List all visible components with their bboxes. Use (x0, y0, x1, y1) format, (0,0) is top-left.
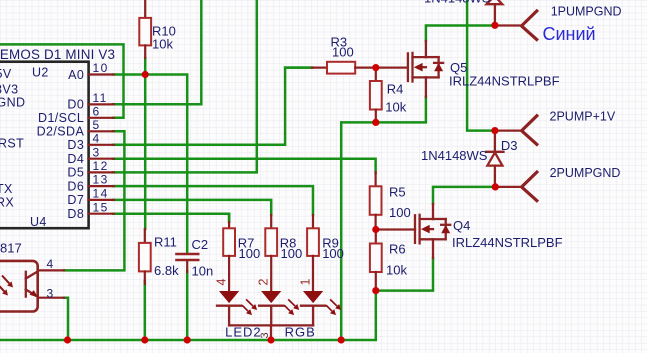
svg-text:2PUMPGND: 2PUMPGND (550, 166, 621, 180)
svg-text:R5: R5 (389, 185, 406, 200)
svg-text:1: 1 (299, 279, 313, 286)
svg-text:13: 13 (93, 173, 109, 187)
svg-text:6.8k: 6.8k (154, 263, 179, 278)
svg-text:11: 11 (93, 91, 108, 105)
resistor R9 (307, 215, 344, 291)
pin D0 (11) (67, 91, 113, 112)
svg-text:D8: D8 (67, 207, 84, 221)
pin D7 (14) (67, 187, 113, 208)
svg-text:14: 14 (93, 187, 109, 201)
opto pin 4 (38, 257, 64, 271)
svg-text:12: 12 (93, 159, 109, 173)
capacitor C2 (175, 237, 213, 279)
transistor Q4 IRLZ44NSTRLPBF (376, 204, 563, 258)
svg-text:RGB: RGB (285, 325, 316, 340)
wire A0 net (113, 75, 187, 253)
resistor R6 (370, 230, 408, 291)
svg-text:5V: 5V (0, 67, 12, 81)
svg-text:D2/SDA: D2/SDA (37, 125, 85, 139)
svg-text:U4: U4 (30, 215, 47, 229)
svg-text:15: 15 (93, 200, 109, 214)
resistor R10 (139, 0, 176, 58)
svg-text:Q4: Q4 (453, 218, 470, 233)
junction 2PUMP+1V node (491, 127, 498, 134)
svg-text:RX: RX (0, 196, 14, 210)
wire D5 net (113, 0, 257, 172)
pin D1/SCL (6) (38, 104, 114, 125)
wire R11 bottom to GND rail (144, 281, 147, 340)
svg-text:10: 10 (93, 61, 109, 75)
pin D3 (4) (67, 131, 113, 152)
svg-text:D6: D6 (67, 179, 84, 193)
LED package LED2 RGB : LED B (pin 2) (257, 279, 300, 326)
pin D6 (13) (67, 173, 113, 194)
svg-text:4: 4 (215, 279, 229, 286)
junction rail GND link (338, 336, 345, 343)
wire Q4 drain to 2PUMPGND node (433, 187, 495, 204)
wire R10 to A0 junction (144, 58, 147, 75)
resistor R7 (223, 215, 260, 291)
svg-text:100: 100 (332, 45, 354, 60)
pin A0 (10) (68, 61, 114, 82)
resistor R5 (370, 172, 411, 230)
svg-text:100: 100 (239, 246, 261, 261)
svg-text:LED2: LED2 (225, 325, 262, 340)
wire D7 net (113, 200, 271, 215)
pin D2/SDA (5) (37, 118, 114, 139)
wire D8 net (113, 214, 229, 221)
LED package LED2 RGB : LED A (pin 4) (215, 279, 258, 326)
pin D5 (12) (67, 159, 113, 180)
LED2 common cathode bus (pin 3) (225, 325, 316, 340)
optocoupler U? PC817 (clipped) (0, 241, 38, 312)
wire D6 net (113, 186, 313, 215)
junction 2PUMPGND node (492, 183, 499, 190)
opto pin 3 (38, 286, 64, 300)
svg-text:2PUMP+1V: 2PUMP+1V (550, 110, 616, 124)
svg-text:10k: 10k (385, 100, 406, 115)
wire D4 net (113, 159, 376, 173)
svg-text:RST: RST (0, 137, 24, 151)
diode D3 1N4148WS (421, 131, 518, 187)
wire Q5 drain to 1PUMPGND node (426, 26, 495, 42)
svg-text:100: 100 (281, 246, 303, 261)
svg-text:10k: 10k (152, 37, 173, 52)
resistor R3 (312, 35, 376, 74)
junction R5/R6/Q4 gate (372, 226, 379, 233)
svg-text:D5: D5 (67, 166, 84, 180)
svg-text:100: 100 (322, 246, 344, 261)
svg-text:100: 100 (389, 205, 411, 220)
svg-text:D0: D0 (67, 98, 84, 112)
svg-text:GND: GND (0, 96, 25, 110)
svg-text:3: 3 (47, 286, 54, 300)
wire R4 bottom GND link (341, 97, 426, 340)
svg-text:5: 5 (93, 118, 101, 132)
wire 2PUMP+1V net from top (467, 0, 495, 131)
pin D8 (15) (67, 200, 113, 221)
wire opto pin3 to GND rail (64, 298, 68, 340)
svg-text:C2: C2 (192, 237, 209, 252)
junction A0/R10/R11 (142, 71, 149, 78)
svg-text:10n: 10n (192, 264, 214, 279)
svg-text:U2: U2 (32, 66, 49, 80)
resistor R8 (265, 215, 302, 291)
svg-text:2: 2 (257, 279, 271, 286)
wire Q5 gate node horizontal (285, 66, 312, 69)
junction R3/R4/Q5 gate (372, 64, 379, 71)
junction rail LED (267, 336, 274, 343)
svg-text:1N4148WS: 1N4148WS (421, 148, 488, 163)
resistor R11 (139, 229, 179, 284)
svg-text:1N4148WS: 1N4148WS (424, 0, 491, 6)
svg-text:D1/SCL: D1/SCL (38, 111, 84, 125)
svg-text:D4: D4 (67, 152, 84, 166)
connector 1PUMPGND (495, 5, 622, 44)
svg-text:D3: D3 (67, 138, 84, 152)
svg-text:Синий: Синий (543, 24, 596, 44)
wire D0 net (113, 0, 201, 104)
wire D2/SDA net (64, 131, 124, 270)
LED package LED2 RGB : LED C (pin 1) (299, 279, 342, 326)
resistor R4 (370, 68, 407, 123)
wire C2 bottom to GND rail (186, 271, 189, 340)
junction R4/GND/Q5 source (372, 119, 379, 126)
junction 1PUMPGND node (491, 22, 498, 29)
junction rail C2 (184, 336, 191, 343)
junction rail opto (64, 336, 71, 343)
svg-text:D3: D3 (501, 138, 518, 153)
svg-text:WEMOS D1 MINI V3: WEMOS D1 MINI V3 (0, 47, 115, 62)
svg-text:4: 4 (93, 131, 101, 145)
svg-text:10k: 10k (386, 263, 407, 278)
connector 2PUMPGND (495, 166, 620, 202)
svg-text:IRLZ44NSTRLPBF: IRLZ44NSTRLPBF (452, 235, 563, 250)
svg-text:4: 4 (47, 257, 54, 271)
svg-text:PC817: PC817 (0, 241, 22, 256)
transistor Q5 IRLZ44NSTRLPBF (376, 41, 560, 97)
svg-text:R4: R4 (387, 82, 404, 97)
junction R6/Q4 source/GND (372, 287, 379, 294)
connector 2PUMP+1V (495, 110, 616, 146)
svg-text:R11: R11 (154, 234, 177, 249)
svg-text:6: 6 (93, 104, 101, 118)
svg-text:3V3: 3V3 (0, 82, 18, 96)
wire D1/SCL net (0, 44, 124, 117)
pin D4 (3) (67, 145, 113, 166)
svg-text:D7: D7 (67, 193, 84, 207)
junction rail R11 (141, 336, 148, 343)
svg-text:3: 3 (93, 145, 101, 159)
svg-text:IRLZ44NSTRLPBF: IRLZ44NSTRLPBF (449, 74, 560, 89)
diode top 1N4148WS (clipped) (424, 0, 502, 25)
svg-text:R6: R6 (389, 241, 406, 256)
svg-text:TX: TX (0, 182, 13, 196)
wire D3 net (113, 68, 312, 145)
wire A0 junction down to R11 (144, 75, 147, 230)
wire GND rail (0, 258, 433, 340)
part U2/U4 WEMOS D1 MINI V3 box (0, 47, 115, 229)
svg-text:A0: A0 (68, 68, 84, 82)
svg-text:1PUMPGND: 1PUMPGND (551, 5, 622, 19)
